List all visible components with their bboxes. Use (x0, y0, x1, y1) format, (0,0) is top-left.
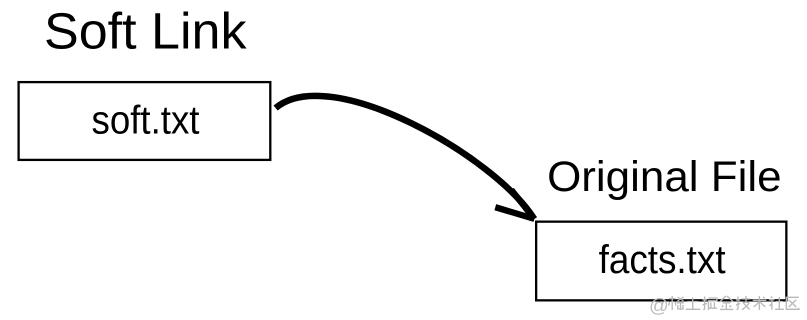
svg-text:Original File: Original File (547, 153, 782, 201)
watermark hanzi xi (669, 296, 684, 310)
watermark @juejin community (649, 295, 800, 317)
svg-text:@: @ (649, 295, 669, 317)
curved arrow shaft (276, 96, 535, 219)
watermark hanzi shu (753, 296, 767, 310)
watermark hanzi qu (786, 297, 799, 309)
box soft.txt (19, 82, 271, 160)
watermark hanzi jue (702, 297, 717, 311)
arrowhead (495, 190, 534, 219)
svg-text:soft.txt: soft.txt (92, 98, 200, 142)
svg-text:Soft Link: Soft Link (44, 3, 247, 60)
svg-text:facts.txt: facts.txt (599, 238, 726, 282)
watermark hanzi she (769, 297, 784, 310)
box facts.txt (536, 222, 786, 301)
watermark hanzi jin (720, 296, 734, 309)
watermark hanzi ji (736, 296, 751, 310)
watermark hanzi tu (686, 298, 701, 310)
